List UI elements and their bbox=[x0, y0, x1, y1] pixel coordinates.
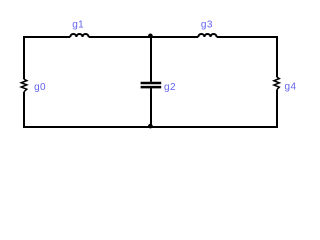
svg-text:g1: g1 bbox=[72, 19, 84, 30]
svg-text:g0: g0 bbox=[34, 82, 46, 93]
svg-text:g2: g2 bbox=[164, 82, 176, 93]
svg-text:g3: g3 bbox=[201, 19, 213, 30]
svg-text:g4: g4 bbox=[285, 82, 297, 93]
